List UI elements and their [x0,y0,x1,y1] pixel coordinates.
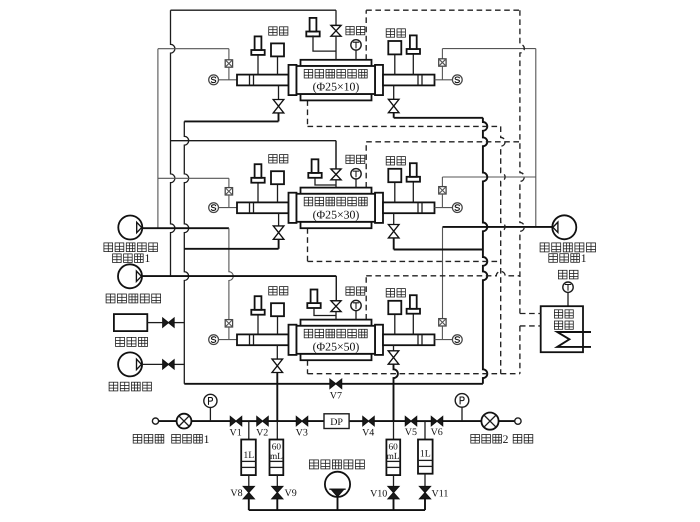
valve: purge needle valve above chamber 1 [331,10,341,60]
node: natural gas inlet [152,418,158,424]
wire: right drain bus x=482.9 [483,118,487,384]
wire: V5-V6 riser to 1L cylinder (right) [424,421,426,439]
label: 恒压恒速泵 [309,460,364,469]
wire: chamber-2 sample-valve feed (y=178.3) [158,178,229,187]
svg-text:V11: V11 [432,489,449,500]
tank: waste gas tank (废气罐) [114,314,147,331]
label: 取样 (right, chamber 1) [386,29,405,37]
valve: left sampling cross valve chamber 2 [225,188,232,195]
heater coil inside oil bath [557,332,591,347]
wire: chamber-3 right drain / V10 riser x=393.4 [394,364,398,421]
svg-text:1: 1 [145,252,151,265]
label: 控温 [558,270,578,279]
wire: chamber-2 purge-valve feed (y=140.7) [171,141,337,169]
label V5 [405,427,417,438]
valve: purge needle valve above chamber 3 [331,276,341,320]
wire: V10 to bottom bus [393,499,395,510]
wire: 1L cylinder to V8 [248,475,250,486]
sampling port box (left, chamber 1) [271,43,284,74]
pipe: left holder pipe chamber 3 [237,334,289,345]
wire: grey pump feed vertical x=157.9 [157,49,159,229]
wire: right pump suction line (y=226.9) [443,226,553,228]
plug fitting (right, chamber 1) [407,35,420,74]
vessel: constant temperature oil bath (恒温油浴) [541,306,583,352]
svg-text:V5: V5 [405,427,417,438]
wire: chamber-1 right sample-valve feed (y=48.2) [442,49,535,59]
wire: chamber-3 sample-valve feed vertical x=228.9 [229,228,233,319]
label V8 [230,488,242,499]
pipe: right holder pipe chamber 3 [383,334,435,345]
wire: chamber-2 right drain line [394,249,483,251]
node: S sensor right of chamber 1 [452,75,462,85]
pump: diffusion-chamber pressure tracking pump 1 [118,216,142,240]
wire: right cross valve to pipe (chamber 2) [441,194,443,208]
node: S sensor right of chamber 3 [452,335,462,345]
valve: left sampling cross valve chamber 1 [225,60,232,67]
dashed oil line: chamber-1 top connector [366,10,520,60]
wire: cross valve to pipe (chamber 3 left) [228,327,230,340]
vessel: holder simulation chamber 3 (夹持器模拟室) [289,320,384,361]
wire: chamber-3 left drain / V9 riser x=277.3 [276,372,278,421]
label: 调压阀2 氮气 [471,433,533,446]
wire: chamber-2 right sample-valve feed (y=177) [442,177,535,188]
label V7 [330,391,342,402]
instrument: temperature controller T [563,282,573,292]
label: 取样 (right, chamber 3) [386,289,405,297]
valve: chamber-2 left drain valve [273,213,284,249]
cylinder: 60 mL piston cylinder (left) [270,440,284,476]
svg-text:(Φ25×30): (Φ25×30) [313,207,360,221]
wire: vent header y=383.8 [184,383,483,385]
wire: chamber-2 left drain line [184,248,278,250]
label: 夹持器模拟室 3 [304,329,367,338]
sampling port box (right, chamber 1) [388,41,401,75]
valve: right sampling cross valve chamber 1 [439,59,446,66]
pump: constant pressure/speed pump (恒压恒速泵) [325,472,350,497]
pump: ring pressure tracking pump (环压跟踪泵) [118,264,142,288]
wire: 60mL cylinder to V9 [276,475,278,486]
svg-text:60: 60 [388,442,398,452]
wire: left bus vertical x=184.3 (drain bus) [184,121,188,383]
node: S sensor left of chamber 1 [209,75,219,85]
label: 取样 (right, chamber 2) [386,157,405,165]
svg-text:V10: V10 [370,489,387,500]
label: 扩散室压力跟踪泵1 (right) [540,243,595,265]
label: 环压跟踪泵 [106,294,160,303]
valve V7 [330,379,342,388]
label: (&#934;25&#215;30) [313,207,360,221]
svg-text:V6: V6 [431,427,443,438]
wire: S sensor link to pipe (chamber 1) [219,79,238,81]
wire: chamber-3 right sample-valve feed vertical x=442.5 [442,227,444,319]
label V10 [370,489,387,500]
dashed oil line: chamber-1 bottom connector [308,100,501,126]
label: 废气罐 [116,337,148,346]
wire: riser to 60mL cylinder (right) [393,421,395,439]
pipe: left holder pipe chamber 2 [237,202,289,213]
plug fitting (top, chamber 2) [308,159,336,185]
wire: top line to chamber-1 purge valve (y=10) [171,9,337,11]
label: (&#934;25&#215;50) [313,339,360,353]
svg-text:DP: DP [330,417,343,428]
label: 测温 chamber 1 [346,27,365,35]
label: 恒温油浴 [554,310,573,330]
sampling port box (right, chamber 3) [388,301,401,335]
dashed oil line: chamber-2 bottom connector [308,228,501,261]
valve: waste tank isolation valve [163,318,174,327]
label: 测温 chamber 3 [346,287,365,295]
wire: main gas line [159,420,515,422]
wire: S sensor link (right, chamber 2) [435,207,453,209]
valve V9 [272,486,283,498]
label V11 [432,489,449,500]
valve V6 [431,417,442,426]
wire: riser to 60mL cylinder (left) [276,421,278,439]
wire: S sensor link to pipe (chamber 3) [219,339,238,341]
wire: 60mL cylinder to V10 [393,475,395,486]
valve: evacuation isolation valve [163,360,174,369]
vessel: holder simulation chamber 2 (夹持器模拟室) [289,188,384,229]
wire: cross valve to pipe (chamber 2 left) [228,195,230,208]
wire: V9 to bottom bus [276,499,278,510]
svg-text:V1: V1 [229,428,241,439]
label: 取样 (left, chamber 1) [269,27,288,35]
wire: waste tank to bus [147,322,184,324]
label V4 [362,428,374,439]
wire: right cross valve to pipe (chamber 3) [441,326,443,340]
plug fitting (left, chamber 3) [251,296,264,334]
cylinder: 60 mL piston cylinder (right) [386,440,400,476]
dashed oil line: oil bath bottom port [520,325,541,327]
svg-text:2: 2 [503,433,509,446]
svg-text:V4: V4 [362,428,374,439]
cylinder: 1L piston cylinder (right) [418,440,433,474]
label V2 [256,428,268,439]
wire: chamber-1 sample-valve feed (y=48.7) [158,49,229,60]
svg-text:(Φ25×10): (Φ25×10) [313,80,360,94]
plug fitting (left, chamber 1) [251,36,264,74]
valve V11 [420,486,431,498]
pipe: right holder pipe chamber 2 [383,202,435,213]
wire: S sensor link to pipe (chamber 2) [219,207,238,209]
svg-text:V8: V8 [230,488,242,499]
pipe: right holder pipe chamber 1 [383,75,435,86]
valve V2 [257,417,268,426]
pump: diffusion-chamber pressure tracking pump (right) [552,215,576,239]
plug fitting (right, chamber 3) [407,295,420,334]
plug fitting (top, chamber 3) [307,290,336,316]
svg-text:V9: V9 [285,488,297,499]
valve V3 [296,417,307,426]
svg-text:V7: V7 [330,391,342,402]
wire: pump-2 line / chamber-3 purge-valve feed (y=276.1) [142,276,337,301]
svg-text:60: 60 [272,442,282,452]
vessel: holder simulation chamber 1 (夹持器模拟室) [289,60,384,101]
valve V8 [243,486,254,498]
dashed oil bus: vessel-bottom return x=500.7 [501,126,505,373]
wire: V11 to bottom bus [424,499,426,510]
node: nitrogen inlet [515,418,521,424]
label: 夹持器模拟室 2 [304,197,367,206]
wire: T controller to oil bath [567,292,569,306]
wire: left bus vertical x=170.5 [171,10,175,276]
valve V10 [388,486,399,498]
valve: chamber-1 right drain valve [388,85,399,117]
wire: S sensor link (right, chamber 1) [435,79,453,81]
label: 取样 (left, chamber 2) [269,155,288,163]
label V9 [285,488,297,499]
plug fitting (right, chamber 2) [407,163,420,202]
sampling port box (left, chamber 2) [271,171,284,202]
pipe: left holder pipe chamber 1 [237,75,289,86]
wire: right feed vertical x=535.8 [535,49,537,227]
wire: evacuation pump to bus [142,363,184,365]
label V6 [431,427,443,438]
label V1 [229,428,241,439]
instrument: pressure gauge P (right) [455,394,469,422]
valve: chamber-3 left drain valve [272,345,283,372]
plug fitting (left, chamber 2) [251,164,264,202]
label: 扩散室压力跟踪泵1 [104,243,158,265]
valve V5 [405,417,416,426]
svg-text:V2: V2 [256,428,268,439]
wire: cross valve to pipe (chamber 1 left) [228,67,230,80]
wire: right cross valve to pipe (chamber 1) [441,66,443,80]
node: S sensor right of chamber 2 [452,203,462,213]
wire: bottom bus [249,509,425,511]
wire: V1-V2 riser to 1L cylinder [248,421,250,439]
valve: pressure regulator 2 (调压阀2) [481,413,498,430]
svg-text:1L: 1L [420,449,431,460]
wire: chamber-1 right drain line [394,117,483,119]
sampling port box (left, chamber 3) [271,303,284,334]
valve: left sampling cross valve chamber 3 [225,320,232,327]
svg-text:1: 1 [581,252,587,265]
node: S sensor left of chamber 2 [209,203,219,213]
dashed oil line: chamber-3 bottom connector [308,360,520,374]
wire: V8 to bottom bus [248,499,250,510]
valve: pressure regulator 1 (调压阀1) [177,414,192,429]
cylinder: 1L piston cylinder (left) [241,440,256,476]
wire: pump-1 discharge line (y=228.2) [142,227,229,229]
sampling port box (right, chamber 2) [388,169,401,203]
label: 取样 (left, chamber 3) [269,287,288,295]
svg-text:1: 1 [204,433,210,446]
valve: chamber-1 left drain valve [273,85,284,121]
valve: right sampling cross valve chamber 2 [439,187,446,194]
wire: chamber-1 left drain line [184,120,278,122]
label: 抽空系统 [109,382,151,391]
dashed oil line: chamber-2 top connector [366,142,520,188]
valve V4 [363,417,374,426]
plug fitting (top, chamber 1) [306,18,336,51]
valve V1 [230,417,241,426]
label V3 [296,428,308,439]
instrument: thermometer T chamber 1 [351,40,361,60]
label: 天然气 调压阀1 [133,433,209,446]
dashed oil line: chamber-3 top connector [366,271,520,319]
node: S sensor left of chamber 3 [209,335,219,345]
label: 测温 chamber 2 [346,155,365,163]
wire: S sensor link (right, chamber 3) [435,339,453,341]
label: 夹持器模拟室 1 [304,70,367,79]
svg-text:mL: mL [270,452,283,462]
svg-text:1L: 1L [243,450,254,461]
valve: chamber-2 right drain valve [388,213,399,249]
svg-text:mL: mL [387,452,400,462]
valve: chamber-3 right drain valve [388,345,399,364]
instrument: DP cell [324,414,349,429]
instrument: thermometer T chamber 3 [351,300,361,319]
wire: 1L cylinder to V11 [424,474,426,487]
wire: pump to bottom bus [337,497,339,510]
dashed oil bus: vessel-top supply x=519.9 [520,10,524,374]
label: (&#934;25&#215;10) [313,80,360,94]
instrument: thermometer T chamber 2 [351,169,361,188]
svg-text:(Φ25×50): (Φ25×50) [313,339,360,353]
instrument: pressure gauge P (left) [204,394,217,421]
dashed oil line: oil bath top port [520,313,541,315]
pump: evacuation system (抽空系统) [118,352,142,376]
svg-text:V3: V3 [296,428,308,439]
valve: purge needle valve above chamber 2 [331,141,341,188]
valve: right sampling cross valve chamber 3 [439,319,446,326]
